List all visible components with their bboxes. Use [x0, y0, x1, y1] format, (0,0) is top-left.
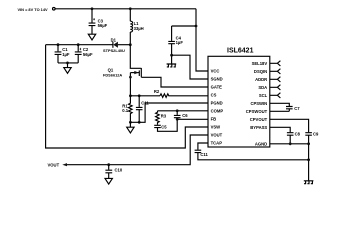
wire CPSWIN — [270, 103, 290, 106]
wire SGND net — [172, 55, 208, 79]
capacitor C9 — [305, 133, 312, 136]
svg-text:D1: D1 — [111, 38, 117, 43]
wire CPSWOUT — [270, 110, 290, 112]
node junction C11 bottom — [138, 121, 141, 124]
wire R1 ground stem — [129, 122, 131, 127]
node junction C10 — [107, 163, 110, 166]
node junction C1C2 ground — [66, 62, 69, 65]
wire C4 branch — [172, 25, 196, 27]
svg-text:CPSWIN: CPSWIN — [250, 101, 267, 106]
svg-text:FDS6612A: FDS6612A — [103, 72, 122, 77]
svg-text:1µF: 1µF — [176, 40, 184, 45]
capacitor C7 — [286, 107, 293, 109]
capacitor C5 — [154, 125, 161, 127]
svg-text:56µF: 56µF — [98, 23, 108, 28]
svg-text:ISL6421: ISL6421 — [227, 48, 254, 55]
pin ADDR no-connect — [270, 77, 281, 82]
ground chassis bottom right — [304, 181, 314, 184]
node junction R1 bottom — [129, 121, 132, 124]
svg-text:VOUT: VOUT — [211, 133, 223, 138]
svg-text:0.1: 0.1 — [122, 108, 128, 113]
svg-text:1µF: 1µF — [62, 52, 70, 57]
resistor R1 — [129, 96, 133, 123]
wire L1 top — [129, 9, 131, 21]
svg-text:R3: R3 — [161, 113, 167, 118]
svg-text:GATE: GATE — [211, 85, 223, 90]
IC U1 box ISL6421 — [208, 56, 270, 147]
ground below C3 — [88, 34, 95, 40]
wire boost output riser to VSW — [46, 45, 208, 148]
pin SCL no-connect — [270, 93, 281, 98]
node junction C4/SGND — [170, 54, 173, 57]
capacitor C6 — [176, 111, 178, 115]
node junction C4 branch — [195, 25, 198, 28]
node junction C6 top — [176, 109, 179, 112]
capacitor C4 — [171, 26, 173, 41]
svg-text:PGND: PGND — [211, 101, 223, 106]
svg-text:C6: C6 — [182, 113, 188, 118]
wire PGND net — [130, 103, 208, 122]
wire CPVOUT — [270, 119, 309, 132]
svg-text:ADDR: ADDR — [255, 77, 267, 82]
node junction top rail L1 — [129, 7, 132, 10]
svg-text:C7: C7 — [294, 106, 300, 111]
wire TCAP ground rail — [198, 153, 309, 160]
node junction R1 top — [129, 94, 132, 97]
svg-text:C10: C10 — [115, 167, 123, 172]
svg-text:SDA: SDA — [258, 85, 267, 90]
wire TCAP — [198, 143, 208, 150]
wire AGND — [270, 143, 309, 145]
svg-text:DSQIN: DSQIN — [254, 69, 267, 74]
capacitor C1 — [57, 45, 59, 52]
resistor R3 — [156, 111, 160, 125]
ground below R1 — [127, 127, 134, 133]
capacitor C10 — [108, 165, 110, 170]
capacitor C3 — [89, 23, 96, 26]
svg-text:STPS2L40U: STPS2L40U — [103, 48, 125, 53]
node junction C1 — [57, 43, 60, 46]
node junction C11 top — [138, 94, 141, 97]
capacitor C8 — [287, 133, 294, 136]
svg-text:C9: C9 — [313, 132, 319, 137]
inductor L1 — [130, 21, 132, 32]
capacitor C11 tcap — [195, 150, 202, 152]
svg-text:TCAP: TCAP — [211, 141, 223, 146]
svg-text:VIN = 8V TO 14V: VIN = 8V TO 14V — [18, 7, 49, 12]
svg-text:SCL: SCL — [259, 93, 268, 98]
node junction C2 — [77, 43, 80, 46]
svg-text:SEL18V: SEL18V — [252, 61, 268, 66]
wire Q1 gate to GATE pin — [141, 77, 208, 87]
svg-text:56µF: 56µF — [83, 52, 93, 57]
transistor Q1 — [130, 45, 141, 69]
resistor R2 — [160, 94, 208, 98]
svg-text:VSW: VSW — [211, 125, 221, 130]
wire L1 bottom to switch node — [129, 32, 131, 45]
svg-text:C5: C5 — [161, 125, 167, 130]
svg-text:VCC: VCC — [211, 69, 220, 74]
svg-text:33µH: 33µH — [134, 26, 144, 31]
pin SDA no-connect — [270, 85, 281, 90]
wire AGND down — [308, 144, 310, 181]
ground chassis below C4 — [167, 64, 177, 67]
capacitor C11 sense — [138, 96, 140, 107]
wire FB net — [177, 118, 208, 120]
wire VCC riser — [196, 9, 208, 71]
node junction FB/C6 — [176, 118, 179, 121]
ground below C10 — [105, 178, 112, 184]
wire C3 branch — [91, 9, 93, 23]
wire COMP net — [158, 110, 209, 112]
wire C1/C2 bottom bus — [58, 62, 78, 64]
ground below C1/C2 — [64, 68, 71, 74]
svg-text:AGND: AGND — [255, 141, 267, 146]
svg-text:COMP: COMP — [211, 109, 224, 114]
svg-text:C11: C11 — [200, 152, 208, 157]
svg-text:SGND: SGND — [211, 77, 223, 82]
wire BYPASS — [270, 127, 290, 132]
node switch junction L1/D1/Q1 — [129, 43, 132, 46]
node VIN terminal circle — [53, 8, 56, 11]
svg-text:CPVOUT: CPVOUT — [250, 117, 268, 122]
node junction AGND/TCAP rail — [307, 158, 310, 161]
svg-text:VOUT: VOUT — [48, 163, 60, 168]
node junction C8/AGND — [289, 142, 292, 145]
svg-text:CPSWOUT: CPSWOUT — [246, 109, 268, 114]
svg-text:R2: R2 — [154, 89, 160, 94]
svg-text:C8: C8 — [295, 132, 301, 137]
wire top rail VIN — [55, 8, 196, 10]
capacitor C2 — [77, 45, 79, 52]
diode D1 — [118, 44, 131, 46]
svg-text:BYPASS: BYPASS — [250, 125, 267, 130]
wire D1 anode rail — [46, 44, 113, 46]
node junction C9/AGND — [307, 142, 310, 145]
wire VOUT pin — [67, 135, 208, 165]
pin SEL18V no-connect — [270, 61, 281, 66]
wire CS net — [130, 95, 160, 97]
svg-text:FB: FB — [211, 117, 217, 122]
pin DSQIN no-connect — [270, 69, 281, 74]
svg-text:CS: CS — [211, 93, 217, 98]
node junction top rail C3 — [91, 7, 94, 10]
node VOUT arrow — [62, 163, 67, 166]
